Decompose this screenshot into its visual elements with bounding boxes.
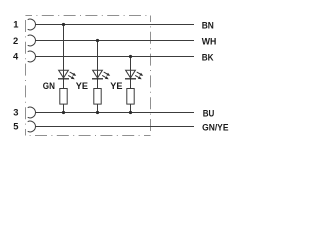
svg-text:BK: BK — [202, 52, 214, 63]
svg-text:1: 1 — [13, 19, 18, 30]
svg-text:5: 5 — [13, 120, 18, 131]
svg-text:BN: BN — [202, 20, 214, 31]
svg-text:YE: YE — [110, 80, 122, 91]
svg-text:YE: YE — [76, 80, 88, 91]
svg-text:GN/YE: GN/YE — [202, 122, 228, 133]
svg-text:2: 2 — [13, 35, 18, 46]
svg-text:WH: WH — [202, 36, 217, 47]
svg-text:3: 3 — [13, 106, 18, 117]
svg-text:BU: BU — [203, 108, 215, 119]
svg-text:4: 4 — [13, 51, 19, 62]
svg-text:GN: GN — [43, 80, 55, 91]
